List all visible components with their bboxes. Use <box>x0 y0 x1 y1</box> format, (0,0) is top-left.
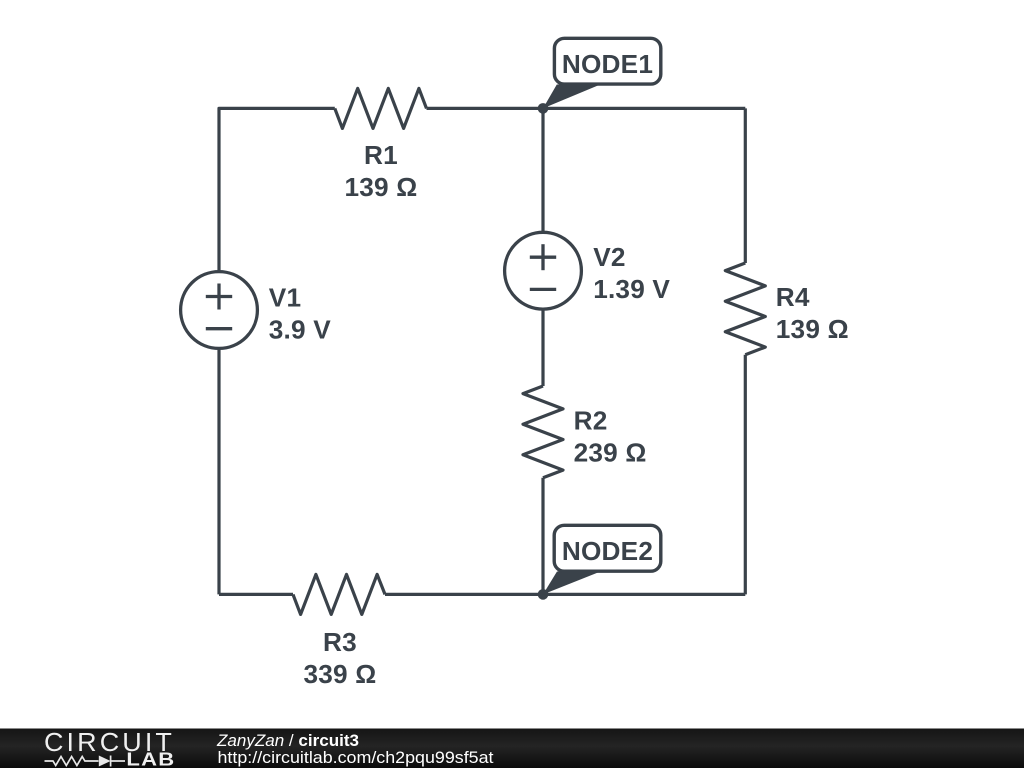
svg-text:1.39 V: 1.39 V <box>593 274 670 304</box>
svg-text:LAB: LAB <box>126 750 175 768</box>
CircuitLab logo diode triangle <box>99 756 111 767</box>
svg-text:NODE2: NODE2 <box>562 536 653 566</box>
svg-text:V1: V1 <box>269 283 301 313</box>
wire bottom rail right (node2 to bottom-right corner) <box>385 593 745 596</box>
resistor R1 <box>335 88 427 128</box>
node NODE2 junction dot <box>538 589 549 600</box>
resistor R4 <box>725 263 765 355</box>
svg-text:R2: R2 <box>574 405 608 435</box>
svg-text:3.9 V: 3.9 V <box>269 315 331 345</box>
svg-text:V2: V2 <box>593 242 625 272</box>
wire left rail bottom (V1 to bottom-left corner) <box>217 349 220 595</box>
NODE1 callout pointer <box>543 85 600 109</box>
CircuitLab logo resistor-diode symbol <box>45 756 126 767</box>
voltage source V2 <box>505 232 582 309</box>
wire top rail R1 to top-right corner <box>427 107 746 110</box>
footer bar <box>0 729 1024 768</box>
svg-text:ZanyZan / circuit3: ZanyZan / circuit3 <box>216 732 359 750</box>
svg-text:R4: R4 <box>776 282 810 312</box>
wire middle branch top (node1 to V2) <box>541 108 544 233</box>
resistor R3 <box>293 574 385 614</box>
node NODE1 junction dot <box>538 103 549 114</box>
wire bottom rail left (left corner to R3) <box>219 593 293 596</box>
NODE2 callout pointer <box>543 572 601 595</box>
svg-text:139 Ω: 139 Ω <box>345 172 418 202</box>
svg-text:R1: R1 <box>364 140 398 170</box>
svg-text:139 Ω: 139 Ω <box>776 314 849 344</box>
svg-text:239 Ω: 239 Ω <box>574 437 647 467</box>
NODE1 callout box <box>554 38 660 84</box>
svg-text:http://circuitlab.com/ch2pqu99: http://circuitlab.com/ch2pqu99sf5at <box>218 749 494 767</box>
resistor R2 <box>523 386 563 478</box>
svg-text:339 Ω: 339 Ω <box>304 659 377 689</box>
wire top-left segment (left rail top + top rail to R1) <box>219 108 335 271</box>
wire right rail top to R4 <box>744 108 747 263</box>
NODE2 callout box <box>554 525 661 571</box>
wire right rail R4 to bottom-right corner <box>744 355 747 595</box>
voltage source V1 <box>181 272 258 349</box>
svg-text:NODE1: NODE1 <box>562 49 653 79</box>
wire middle branch V2 to R2 <box>541 309 544 386</box>
svg-text:R3: R3 <box>323 627 357 657</box>
wire middle branch R2 to node2 <box>541 478 544 595</box>
